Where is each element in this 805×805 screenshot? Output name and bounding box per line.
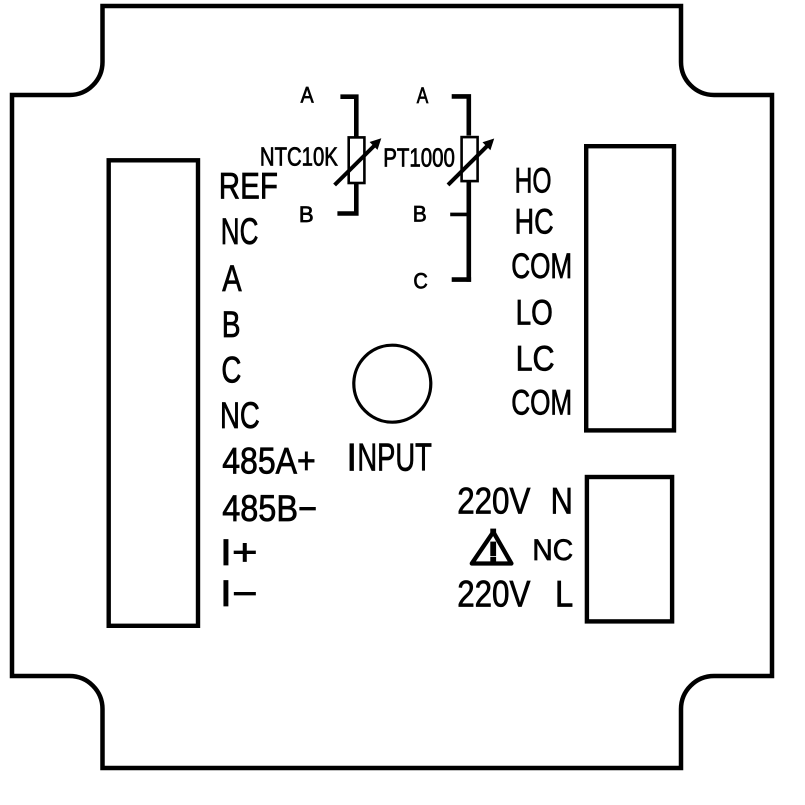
- svg-text:PT1000: PT1000: [383, 144, 455, 172]
- terminal block right lower: [587, 477, 672, 621]
- svg-text:A: A: [222, 258, 242, 299]
- svg-text:B: B: [222, 304, 241, 345]
- pin B stub: [337, 183, 358, 216]
- pin C stub: [452, 277, 471, 282]
- svg-text:N: N: [551, 481, 573, 522]
- terminal block right upper: [586, 146, 674, 430]
- svg-text:I−: I−: [220, 573, 258, 614]
- svg-text:C: C: [413, 269, 427, 294]
- svg-text:C: C: [221, 350, 241, 391]
- adjust arrow: [335, 144, 377, 186]
- svg-text:NC: NC: [220, 395, 260, 436]
- svg-text:I+: I+: [220, 532, 258, 573]
- pin B tick: [450, 213, 469, 217]
- svg-text:HO: HO: [515, 160, 552, 200]
- thermistor PT1000: [383, 83, 494, 294]
- svg-text:NC: NC: [532, 534, 573, 567]
- warning symbol: [472, 529, 512, 564]
- svg-text:B: B: [413, 202, 427, 227]
- terminal block left: [109, 160, 198, 626]
- body: [462, 137, 478, 181]
- svg-text:COM: COM: [511, 383, 572, 423]
- svg-text:I: I: [346, 436, 357, 479]
- svg-text:485B−: 485B−: [222, 488, 317, 529]
- svg-text:485A+: 485A+: [222, 441, 316, 482]
- svg-text:LC: LC: [516, 339, 555, 379]
- adjust arrow: [448, 144, 490, 185]
- svg-text:NC: NC: [221, 211, 259, 252]
- pin A stub: [340, 97, 356, 137]
- svg-text:NPUT: NPUT: [357, 436, 432, 479]
- svg-text:HC: HC: [515, 202, 554, 242]
- svg-text:A: A: [417, 83, 429, 108]
- pin A stub: [452, 96, 469, 135]
- svg-text:A: A: [301, 82, 314, 107]
- body: [349, 137, 365, 183]
- svg-text:220V: 220V: [457, 574, 530, 615]
- svg-text:220V: 220V: [457, 481, 530, 522]
- svg-text:L: L: [555, 574, 573, 615]
- svg-text:LO: LO: [516, 293, 553, 333]
- svg-text:COM: COM: [511, 246, 572, 286]
- thermistor NTC10K: [260, 82, 381, 227]
- svg-text:B: B: [299, 202, 314, 227]
- input hole circle: [354, 345, 431, 422]
- svg-text:REF: REF: [219, 165, 278, 206]
- lead to C: [466, 181, 471, 281]
